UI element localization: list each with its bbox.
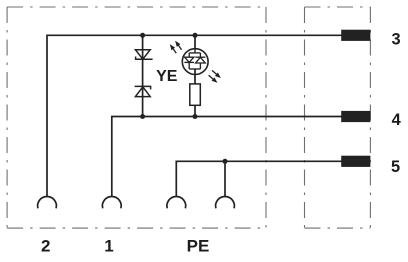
contact PE a <box>167 196 186 208</box>
svg-text:1: 1 <box>104 237 113 256</box>
svg-text:YE: YE <box>156 68 178 85</box>
contact 2 <box>38 196 57 208</box>
svg-text:3: 3 <box>391 30 400 48</box>
node wire4/resistor <box>193 114 198 119</box>
wire PE second drop <box>224 161 226 196</box>
LED chip right diode <box>195 57 205 63</box>
wire net 5 <box>176 161 341 196</box>
zener diode top (suppressor) <box>135 50 152 60</box>
LED internal frame <box>189 49 200 69</box>
svg-text:2: 2 <box>41 237 50 256</box>
LED U1 circle <box>182 49 208 75</box>
LED light arrow lower-right A <box>212 70 220 77</box>
terminal pin 3 <box>341 30 370 41</box>
resistor R1 <box>190 84 201 105</box>
contact 1 <box>102 196 121 208</box>
enclosure left chain-line box <box>7 7 266 228</box>
wire LED branch bottom <box>194 69 196 84</box>
LED light arrow upper-left B <box>171 46 176 54</box>
wire resistor to node <box>194 105 196 116</box>
zener diode bottom (suppressor) <box>135 86 151 96</box>
node wire5/PE <box>223 159 228 164</box>
LED chip left diode <box>184 57 194 62</box>
wire net 3 <box>47 35 342 196</box>
enclosure right chain-line box <box>305 7 371 228</box>
wire LED branch top <box>194 35 196 48</box>
svg-text:5: 5 <box>391 158 400 176</box>
contact PE b <box>216 196 235 208</box>
svg-text:4: 4 <box>392 111 402 129</box>
node wire4/zener <box>140 114 145 119</box>
wire net 4 <box>112 117 342 197</box>
terminal pin 5 <box>341 156 370 167</box>
wire suppressor branch <box>142 35 144 116</box>
LED light arrow upper-left A <box>176 42 181 50</box>
svg-text:PE: PE <box>187 237 210 256</box>
node wire3/zener <box>140 33 145 38</box>
node wire3/LED <box>193 33 198 38</box>
terminal pin 4 <box>341 111 370 122</box>
LED light arrow lower-right B <box>209 75 217 82</box>
